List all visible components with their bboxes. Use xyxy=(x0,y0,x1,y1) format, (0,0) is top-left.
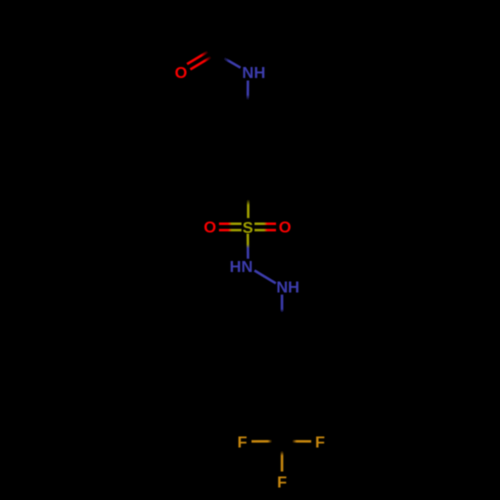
svg-text:N: N xyxy=(241,259,253,276)
svg-text:F: F xyxy=(237,435,247,452)
svg-text:O: O xyxy=(204,220,216,237)
svg-text:H: H xyxy=(288,280,300,297)
svg-text:N: N xyxy=(276,280,288,297)
svg-text:N: N xyxy=(242,65,254,82)
svg-text:H: H xyxy=(230,259,242,276)
svg-text:F: F xyxy=(277,475,287,492)
svg-text:S: S xyxy=(242,220,253,237)
svg-text:H: H xyxy=(254,65,266,82)
svg-text:O: O xyxy=(279,220,291,237)
svg-text:O: O xyxy=(175,65,187,82)
svg-text:F: F xyxy=(315,434,325,451)
